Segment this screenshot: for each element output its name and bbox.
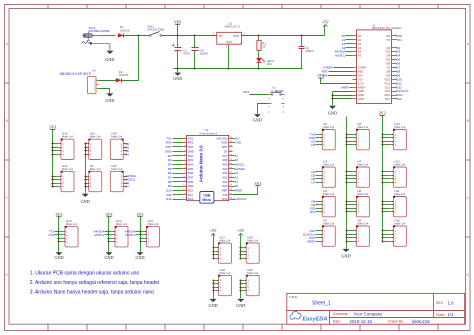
connector header H22 (Male 1x4)	[111, 219, 129, 247]
svg-text:Male 1x4: Male 1x4	[220, 239, 231, 243]
svg-text:Arduino Nano 3.0: Arduino Nano 3.0	[199, 145, 204, 183]
svg-text:D3: D3	[311, 143, 315, 147]
junction	[382, 175, 384, 177]
net label RX0 (U3 left)	[166, 141, 183, 145]
net label D13/CLK (H5)	[303, 232, 318, 236]
power flag +5V	[324, 26, 326, 36]
connector header H9 (Male 1x4)	[353, 218, 370, 246]
power flag 3V3 (H20)	[56, 212, 63, 217]
net label D8 (H4)	[311, 199, 318, 203]
junction 3V3 bus	[53, 150, 57, 152]
junction 3V3 bus	[53, 179, 57, 181]
junction	[346, 137, 348, 139]
svg-text:DC099-2.0MM: DC099-2.0MM	[89, 29, 110, 33]
wire ground rail	[174, 68, 303, 70]
net label A4/SDA (J1)	[335, 50, 353, 54]
svg-text:3V3: 3V3	[106, 212, 113, 217]
net label A0 (J1)	[342, 34, 353, 38]
junction 3V3 bus	[53, 186, 57, 188]
LED LED1	[256, 58, 274, 69]
net label D10 (J1 right)	[396, 77, 403, 81]
wire 3V3 flag to U3	[233, 187, 258, 195]
ground (H28)	[209, 299, 218, 308]
junction	[346, 134, 348, 136]
svg-text:Male 1x4: Male 1x4	[357, 222, 368, 226]
net label D10 (U3 left)	[166, 188, 182, 192]
svg-text:Male 1x4: Male 1x4	[357, 163, 368, 167]
svg-text:Male 1x4: Male 1x4	[357, 192, 368, 196]
svg-text:Male 1x4: Male 1x4	[111, 135, 122, 139]
net label A5/SCL (U3 right)	[233, 162, 246, 166]
net label D3 (H2)	[311, 143, 318, 147]
svg-text:AREF: AREF	[234, 188, 242, 192]
svg-text:A7: A7	[125, 185, 129, 189]
connector header H28 (Male 1x4)	[215, 268, 232, 296]
svg-text:OUT: OUT	[233, 34, 240, 38]
junction gnd rail C4	[194, 68, 196, 70]
net label A1 (U3 right)	[233, 180, 239, 184]
ground (H15/H1)	[81, 194, 90, 204]
junction	[382, 211, 384, 213]
junction	[346, 241, 348, 243]
junction gnd rail LED1	[258, 68, 260, 70]
net label RX0 (H20)	[49, 233, 61, 237]
junction C4 top	[194, 35, 196, 37]
terminal block U4 DB126V-5.0-3P-GN-P	[60, 69, 99, 94]
svg-text:SCL: SCL	[385, 97, 391, 101]
net label D13/CLK (J1 right)	[396, 89, 409, 93]
svg-text:A5/SCL: A5/SCL	[94, 233, 105, 237]
wire RST to U1	[250, 94, 268, 96]
svg-text:GND: GND	[105, 98, 114, 103]
junction GND bus	[85, 176, 86, 178]
ground (H6-H9)	[341, 249, 350, 259]
junction	[346, 182, 348, 184]
svg-text:A5: A5	[358, 54, 362, 58]
junction	[240, 280, 242, 282]
ground (H22)	[104, 252, 113, 260]
svg-text:D7: D7	[311, 180, 315, 184]
power flag 3V3 (H22)	[106, 212, 113, 217]
ground (H20)	[54, 252, 63, 260]
connector header H11 (Male 1x4)	[390, 189, 407, 217]
svg-text:D12: D12	[166, 197, 172, 201]
svg-text:Male 1x4: Male 1x4	[394, 192, 405, 196]
junction	[346, 144, 348, 146]
net label D9 (U3 left)	[168, 184, 183, 188]
capacitor C2 47uF	[172, 36, 191, 69]
junction 3V3 bus	[53, 143, 57, 145]
net label A5/SCL (H23)	[125, 233, 142, 237]
svg-text:1.0: 1.0	[448, 300, 455, 305]
svg-text:OSK26: OSK26	[119, 73, 129, 77]
resistor R1 1k	[257, 36, 267, 58]
junction	[213, 251, 215, 253]
junction	[240, 251, 242, 253]
junction C1 top	[301, 35, 303, 37]
junction	[140, 231, 142, 233]
net label D7 (H3)	[311, 180, 318, 184]
net label TX1 (H2)	[310, 132, 319, 136]
net label D5 (H3)	[311, 173, 318, 177]
svg-text:100nF: 100nF	[200, 52, 209, 56]
svg-text:EasyEDA: EasyEDA	[303, 316, 328, 322]
connector header H3 (Male 1x4)	[319, 159, 336, 187]
connector header H4 (Male 1x4)	[319, 189, 336, 217]
svg-text:204: 204	[267, 62, 272, 66]
wire 3V3/GND bus H23	[140, 217, 142, 253]
net label A3 (U3 right)	[233, 171, 239, 175]
net label AREF (U3 right)	[233, 188, 243, 192]
svg-text:Male 1x4: Male 1x4	[323, 222, 334, 226]
net label IOREF (J1)	[323, 66, 352, 70]
net label D12 (H5)	[310, 229, 319, 233]
junction	[382, 208, 384, 210]
net label A0 (U3 right)	[233, 184, 239, 188]
junction GND bus	[85, 154, 86, 156]
junction	[346, 208, 348, 210]
junction 3V3 bus	[53, 176, 57, 178]
connector header H12 (Male 1x4)	[390, 159, 407, 187]
svg-text:1. Ukuran PCB sama dengan ukur: 1. Ukuran PCB sama dengan ukuran arduino…	[30, 270, 140, 276]
junction gnd rail U2	[228, 68, 230, 70]
wire GND bus (H15/H1)	[85, 144, 87, 194]
connector header H16 (Male 1x4)	[57, 164, 75, 192]
svg-text:Male 1x4: Male 1x4	[148, 222, 159, 226]
svg-text:GND: GND	[253, 118, 262, 123]
junction	[382, 134, 384, 136]
svg-text:lektroz16: lektroz16	[412, 319, 430, 324]
junction	[213, 290, 215, 292]
junction	[108, 234, 110, 236]
svg-text:U4: U4	[92, 69, 96, 73]
connector header H8 (Male 1x4)	[353, 189, 370, 217]
capacitor C1 100nF	[299, 36, 314, 69]
svg-text:D12: D12	[188, 197, 194, 201]
net label D11 (J1 right)	[396, 81, 403, 85]
svg-text:GND: GND	[105, 57, 114, 62]
svg-text:TX: TX	[387, 38, 391, 42]
junction	[58, 241, 60, 243]
connector header H5 (Male 1x4)	[319, 218, 336, 246]
net label AREF (H5)	[307, 239, 318, 243]
net label A7 (U3 right)	[233, 154, 239, 158]
net label D3 (U3 left)	[168, 158, 183, 162]
svg-text:3V3: 3V3	[56, 212, 63, 217]
junction	[382, 178, 384, 180]
connector header H13 (Male 1x4)	[390, 122, 407, 150]
connector header H20 (Male 1x4)	[61, 219, 79, 247]
junction	[346, 234, 348, 236]
net label D12 (U3 left)	[166, 197, 182, 201]
junction GND bus	[85, 186, 86, 188]
junction	[240, 254, 242, 256]
net label D2 (U3 left)	[168, 154, 183, 158]
junction	[382, 144, 384, 146]
net label TX1 (J1 right)	[396, 38, 403, 42]
svg-text:Male 1x4: Male 1x4	[90, 167, 101, 171]
junction	[346, 141, 348, 143]
svg-text:Date:: Date:	[333, 320, 341, 324]
svg-text:Male 1x4: Male 1x4	[90, 135, 101, 139]
wire U2 GND pin	[228, 45, 230, 69]
wire U4 pin1 to D2	[99, 80, 116, 82]
wire J1 GND pins bus	[333, 91, 353, 93]
net label D11 (U3 left)	[166, 193, 182, 197]
net label D4 (J1 right)	[396, 54, 401, 58]
net label GND (U3 left)	[165, 149, 183, 153]
net label VIN (J1)	[322, 73, 352, 77]
svg-text:+5V: +5V	[237, 228, 244, 233]
ground (DC jack sleeve)	[105, 51, 114, 62]
power flag 3V3 (H23)	[137, 212, 144, 217]
net flag VIN	[174, 19, 181, 24]
push button U1 C-TA648	[268, 86, 285, 115]
junction	[213, 283, 215, 285]
net label D4 (H3)	[311, 170, 318, 174]
svg-text:Male 1x4: Male 1x4	[323, 125, 334, 129]
svg-text:2. Arduino uno hanya sebagai r: 2. Arduino uno hanya sebagai referensi s…	[30, 280, 160, 286]
svg-text:Male 1x4: Male 1x4	[323, 192, 334, 196]
net label A1 (J1)	[342, 38, 353, 42]
net label TX1 (U3 left)	[166, 136, 182, 140]
connector header H23 (Male 1x4)	[143, 219, 160, 247]
net label D9 (H4)	[311, 203, 318, 207]
net label VIN (U3 right)	[233, 136, 240, 140]
svg-text:IN: IN	[219, 34, 222, 38]
junction R1 top	[258, 35, 260, 37]
svg-text:SCL: SCL	[396, 97, 402, 101]
power flag +5V (H27)	[210, 228, 217, 235]
svg-text:3V3: 3V3	[318, 73, 325, 78]
svg-text:REV:: REV:	[436, 301, 444, 305]
svg-text:AREF: AREF	[341, 85, 349, 89]
junction	[213, 287, 215, 289]
net label A5/SCL (J1)	[335, 54, 353, 58]
junction	[382, 182, 384, 184]
connector header H1 (Male 1x4)	[85, 164, 102, 192]
net label GND (U3 right)	[233, 141, 242, 145]
svg-text:Male 1x4: Male 1x4	[220, 271, 231, 275]
ground (U1)	[253, 114, 262, 122]
junction GND bus	[85, 150, 86, 152]
svg-text:VIN: VIN	[174, 19, 181, 24]
net label A5/SCL (H22)	[94, 233, 110, 237]
connector J1 ARDUINO_R3_SHIELD	[353, 23, 402, 103]
net label RX0 (J1 right)	[396, 34, 403, 38]
junction	[346, 211, 348, 213]
ground (H23)	[135, 252, 144, 260]
connector header H18 (Male 1x4)	[57, 132, 75, 160]
net label A2 (J1)	[342, 42, 353, 46]
svg-text:TITLE:: TITLE:	[289, 295, 298, 299]
svg-text:GND: GND	[236, 303, 245, 308]
svg-text:A3: A3	[125, 153, 129, 157]
net label D6 (U3 left)	[168, 171, 183, 175]
net label D10 (H4)	[310, 206, 319, 210]
junction	[240, 258, 242, 260]
wire node to D2 branch	[122, 36, 139, 81]
junction GND bus	[85, 183, 86, 185]
svg-text:D11: D11	[310, 210, 316, 214]
wire DC1 to D1	[101, 35, 116, 37]
svg-text:EVQ22705R: EVQ22705R	[148, 28, 166, 32]
junction	[382, 234, 384, 236]
junction	[58, 238, 60, 240]
svg-text:Male 1x4: Male 1x4	[111, 167, 122, 171]
svg-text:Sheet_1: Sheet_1	[312, 301, 331, 307]
svg-text:Company:: Company:	[333, 312, 349, 316]
net label TX1 (H20)	[49, 229, 61, 233]
wire U1 pin1 to ground	[258, 104, 268, 115]
junction	[108, 238, 110, 240]
net label RX0 (H2)	[309, 136, 318, 140]
net label D9 (J1 right)	[396, 73, 401, 77]
net label D8 (U3 left)	[168, 180, 183, 184]
svg-text:Male 1x4: Male 1x4	[394, 222, 405, 226]
wire 3V3/GND bus H20	[58, 217, 60, 253]
wire 3V3/GND bus H22	[108, 217, 110, 253]
svg-text:Drawn By:: Drawn By:	[388, 320, 404, 324]
svg-text:GND: GND	[209, 303, 218, 308]
connector header H35 (Male 1x4)	[110, 164, 127, 192]
net label D5 (J1 right)	[396, 58, 401, 62]
junction	[240, 287, 242, 289]
junction	[213, 258, 215, 260]
svg-text:D13: D13	[222, 197, 228, 201]
junction	[213, 280, 215, 282]
wire VIN flag	[177, 25, 179, 36]
wire GND bus H28	[213, 281, 215, 299]
junction VIN node	[177, 35, 179, 37]
diode D1 OSK26	[118, 25, 130, 38]
net label D7 (U3 left)	[168, 175, 183, 179]
junction J1 gnd2	[332, 98, 334, 100]
net label RST (U3 left)	[166, 145, 183, 149]
net label D8 (J1 right)	[396, 69, 401, 73]
svg-text:Male 1x4: Male 1x4	[247, 239, 258, 243]
junction	[140, 234, 142, 236]
junction J1 gnd1	[332, 95, 334, 97]
junction	[382, 201, 384, 203]
connector header H7 (Male 1x4)	[353, 159, 370, 187]
svg-text:Male 1x4: Male 1x4	[116, 222, 127, 226]
svg-text:GND: GND	[234, 141, 242, 145]
junction	[382, 230, 384, 232]
connector header H10 (Male 1x4)	[390, 218, 407, 246]
svg-text:1k: 1k	[262, 45, 266, 49]
svg-text:GND: GND	[173, 76, 182, 81]
connector header H34 (Male 1x4)	[110, 132, 127, 160]
junction	[382, 241, 384, 243]
wire 3V3 bus (H13-H10)	[382, 116, 384, 242]
net label RST (J1)	[322, 69, 353, 73]
svg-text:AMS1117-5: AMS1117-5	[225, 25, 241, 29]
connector header H2 (Male 1x4)	[319, 122, 336, 150]
svg-text:GND: GND	[54, 255, 63, 260]
regulator U2 AMS1117-5	[213, 21, 246, 48]
wire U4 pin3 to ground	[99, 89, 110, 94]
wire 3V3 to J1	[321, 79, 353, 84]
ground (main rail)	[173, 73, 182, 81]
svg-text:Male 1x4: Male 1x4	[357, 125, 368, 129]
net label SDA (J1 right)	[396, 93, 403, 97]
net label D6 (H3)	[311, 177, 318, 181]
junction	[346, 171, 348, 173]
svg-text:+5V: +5V	[210, 228, 217, 233]
junction 3V3 bus	[53, 147, 57, 149]
svg-text:Male 1x4: Male 1x4	[62, 167, 73, 171]
svg-text:Male 1x4: Male 1x4	[323, 163, 334, 167]
svg-text:3V3: 3V3	[379, 111, 386, 116]
net label A4/SDA (H22)	[94, 229, 111, 233]
junction GND bus	[85, 143, 86, 145]
svg-text:+5V: +5V	[322, 19, 329, 24]
svg-text:GND: GND	[328, 110, 337, 115]
net label SCL (J1 right)	[396, 97, 403, 101]
svg-text:3V3: 3V3	[137, 212, 144, 217]
net label A4/SDA (H23)	[125, 229, 143, 233]
svg-text:2019-12-15: 2019-12-15	[350, 319, 373, 324]
junction	[346, 230, 348, 232]
svg-text:AREF: AREF	[307, 239, 315, 243]
svg-text:A5/SCL: A5/SCL	[335, 54, 346, 58]
svg-text:GND: GND	[358, 97, 364, 101]
junction	[240, 247, 242, 249]
mcu module U3 ArduinoNanoS	[183, 128, 233, 201]
net label D13/CLK (U3 right)	[233, 197, 247, 201]
junction GND bus	[85, 147, 86, 149]
wire 3V3 bus left	[52, 130, 54, 187]
connector header H30 (Male 1x4)	[243, 268, 260, 296]
wire +5V bus H29	[240, 235, 242, 259]
svg-text:100nF: 100nF	[305, 49, 314, 53]
svg-text:Your Company: Your Company	[354, 312, 384, 317]
ground (U4)	[105, 93, 114, 102]
junction	[346, 237, 348, 239]
connector header H27 (Male 1x4)	[215, 235, 232, 263]
switch SW1 EVQ22705R	[148, 24, 166, 36]
svg-text:Micro: Micro	[202, 198, 211, 202]
connector header H6 (Male 1x4)	[353, 122, 370, 150]
title block	[287, 293, 465, 324]
net label RST (H5)	[309, 236, 318, 240]
svg-text:GND: GND	[81, 199, 90, 204]
ground (J1)	[328, 106, 337, 116]
junction	[382, 141, 384, 143]
connector header H29 (Male 1x4)	[243, 235, 260, 263]
connector header H15 (Male 1x4)	[85, 132, 102, 160]
svg-text:Male 1x4: Male 1x4	[66, 222, 77, 226]
junction	[58, 234, 60, 236]
junction	[108, 231, 110, 233]
net label D11 (H4)	[310, 210, 319, 214]
power flag 3V3 (left bus)	[49, 125, 56, 130]
svg-text:OSK26: OSK26	[120, 28, 130, 32]
svg-text:Male 1x4: Male 1x4	[62, 135, 73, 139]
net label A4/SDA (U3 right)	[233, 167, 246, 171]
junction gnd rail C2	[177, 68, 179, 70]
junction	[58, 231, 60, 233]
svg-text:GND: GND	[341, 253, 350, 258]
junction	[382, 171, 384, 173]
svg-text:GND: GND	[104, 255, 113, 260]
net label D3 (J1 right)	[396, 50, 401, 54]
net label A2 (U3 right)	[233, 175, 239, 179]
power flag 3V3 (H13-H10)	[379, 111, 386, 116]
svg-text:D13/CLK: D13/CLK	[234, 197, 246, 201]
wire D1 to SW1	[124, 35, 150, 37]
